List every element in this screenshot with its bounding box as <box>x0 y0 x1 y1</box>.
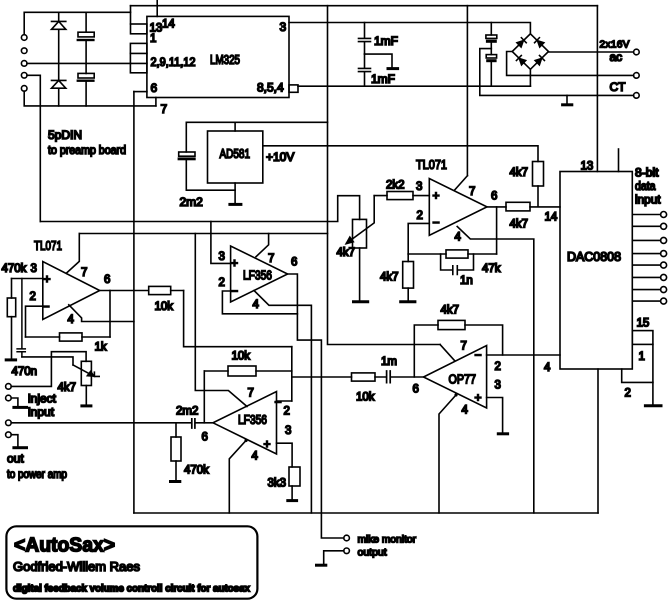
capacitor 2m2 output <box>11 419 213 428</box>
svg-text:−: − <box>231 284 238 298</box>
svg-text:7: 7 <box>161 102 168 116</box>
bridge diode arrow upper-right <box>535 38 545 48</box>
svg-text:6: 6 <box>491 191 497 203</box>
DAC data pin stub 1 <box>632 212 666 218</box>
5pDIN connector pin 4 <box>21 73 27 79</box>
bridge diode arrow lower-left <box>516 56 526 66</box>
resistor 470k input <box>7 279 15 317</box>
electrolytic capacitor CE2 <box>77 63 95 106</box>
svg-text:4k7: 4k7 <box>380 272 399 284</box>
U3 pin 2 feedback wire <box>222 291 297 314</box>
svg-text:+: + <box>475 391 482 405</box>
U3 pin 4 wire <box>254 291 311 514</box>
LM325 pin 6 stub <box>134 91 147 93</box>
svg-text:LF356: LF356 <box>238 412 267 427</box>
svg-text:10k: 10k <box>356 392 375 404</box>
svg-text:2: 2 <box>284 406 290 418</box>
ground U5 pin 3 <box>498 432 507 435</box>
svg-text:+: + <box>433 189 440 203</box>
resistor 4k7 bias <box>403 254 414 288</box>
ground 470k input <box>6 317 15 360</box>
svg-text:4k7: 4k7 <box>510 167 529 179</box>
svg-text:3: 3 <box>285 425 291 437</box>
AutoSax title box <box>6 526 257 598</box>
svg-text:Godfried-Willem Raes: Godfried-Willem Raes <box>13 559 140 574</box>
LM325 pin 7 step <box>155 98 157 106</box>
AD581 top pin wire <box>234 122 236 131</box>
svg-text:output: output <box>358 547 387 559</box>
svg-text:2m2: 2m2 <box>180 195 204 209</box>
svg-text:ac: ac <box>610 50 623 64</box>
svg-text:2,9,11,12: 2,9,11,12 <box>151 57 196 69</box>
op-amp U3 LF356 top triangle <box>231 246 288 302</box>
DAC data pin stub 4 <box>632 251 666 257</box>
wire U1 out to summing node <box>184 291 292 347</box>
ground AD581 <box>230 183 241 204</box>
ground 470k output <box>171 461 180 482</box>
bridge diode arrow upper-left <box>516 38 526 48</box>
5pDIN connector pin 1 <box>21 35 27 41</box>
wire V-plus rail 233.5 <box>79 233 327 235</box>
wire summing node vertical <box>291 347 293 401</box>
terminal out ground <box>6 432 12 438</box>
wire pin3 to LM325 2,9,11,12 <box>27 62 131 64</box>
svg-text:TL071: TL071 <box>416 157 447 172</box>
svg-text:4: 4 <box>544 362 551 374</box>
svg-text:3k3: 3k3 <box>268 478 287 490</box>
svg-text:5pDIN: 5pDIN <box>48 128 82 142</box>
ground on CT line <box>563 95 572 104</box>
LM325 pin box stack 2,9,11,12 <box>130 43 147 72</box>
wire output terminal to ground <box>324 551 344 564</box>
LM325 pin box 13/14 <box>131 6 147 34</box>
TL071 right pin 4 wire <box>457 227 534 514</box>
capacitor 1mF upper <box>359 23 371 55</box>
svg-text:4k7: 4k7 <box>58 382 77 394</box>
electrolytic capacitor CE4 <box>486 55 496 87</box>
U1 pin 4 wire <box>69 305 134 322</box>
svg-text:1: 1 <box>150 33 156 45</box>
reference AD581 box <box>208 131 263 183</box>
DAC data pin stub 6 <box>632 274 666 280</box>
bridge diode arrow lower-right <box>535 56 545 66</box>
svg-text:4: 4 <box>462 405 469 417</box>
svg-text:4: 4 <box>252 451 259 463</box>
svg-text:6: 6 <box>413 384 419 396</box>
LM325 pin 3 wire to bridge plus <box>289 23 530 34</box>
svg-text:10k: 10k <box>232 351 251 363</box>
U4 pin 4 wire <box>229 441 246 514</box>
svg-text:inject: inject <box>28 392 57 406</box>
op-amp U1 TL071 left triangle <box>43 262 100 320</box>
svg-text:6: 6 <box>151 81 158 95</box>
diode D2 <box>52 80 66 106</box>
capacitor 2m2 electrolytic <box>178 122 236 190</box>
ground at 1mF midpoint <box>365 54 398 69</box>
wire caps midpoint to CT <box>480 49 634 96</box>
ground out terminal <box>11 435 26 448</box>
LM325 pin 8,5,4 wire to bridge minus <box>298 85 530 87</box>
DAC bottom wire to rail <box>597 369 599 513</box>
TL071 right pin 7 wire <box>454 176 467 191</box>
svg-text:4k7: 4k7 <box>510 219 529 231</box>
DAC data pin stub 8 <box>632 298 666 304</box>
U5 pin 4 wire <box>439 395 456 513</box>
svg-text:CT: CT <box>610 80 627 94</box>
svg-text:data: data <box>635 181 656 193</box>
terminal inject signal <box>6 384 12 390</box>
DAC data pin stub 7 <box>632 287 666 293</box>
svg-text:input: input <box>28 405 55 419</box>
svg-text:6: 6 <box>291 257 297 269</box>
terminal output <box>344 548 350 554</box>
svg-text:+: + <box>264 437 271 451</box>
svg-text:3: 3 <box>219 251 225 263</box>
U3 pin 7 wire <box>256 234 269 257</box>
svg-text:mike monitor: mike monitor <box>358 534 417 546</box>
svg-text:14: 14 <box>162 19 175 31</box>
svg-text:1: 1 <box>639 351 645 363</box>
U4 pin 2 wire <box>277 400 292 402</box>
svg-text:AD581: AD581 <box>220 146 251 161</box>
resistor 4k7 feedback U5 <box>414 320 502 377</box>
svg-text:8,5,4: 8,5,4 <box>257 81 284 95</box>
wire bridge right vertex to 2x16V <box>549 51 634 53</box>
svg-text:+: + <box>44 272 51 286</box>
svg-text:3: 3 <box>31 263 37 275</box>
svg-text:DAC0808: DAC0808 <box>567 250 621 264</box>
svg-text:2k2: 2k2 <box>386 180 405 192</box>
TL071 right output wire and resistor 4k7 out <box>487 202 560 211</box>
top border wire <box>131 5 598 7</box>
terminal mike monitor <box>344 535 350 541</box>
resistor 4k7 pullup <box>533 162 544 187</box>
regulator LM325 box <box>147 16 289 97</box>
op-amp U5 OP77 triangle <box>424 346 487 409</box>
svg-text:470k: 470k <box>2 263 27 275</box>
U1 pin 2 wire <box>26 306 43 337</box>
wire bridge left vertex to ac2 <box>507 52 634 76</box>
ground trimmer upper <box>354 248 368 302</box>
wire V-minus long vertical <box>133 92 135 513</box>
svg-text:1mF: 1mF <box>374 34 398 48</box>
svg-text:3: 3 <box>416 181 422 193</box>
svg-text:14: 14 <box>545 212 558 224</box>
svg-text:3: 3 <box>280 20 287 34</box>
capacitor 470n <box>17 279 25 357</box>
wire 222 rail to trimmer top <box>40 196 359 222</box>
DAC data pin stub 3 <box>632 237 666 243</box>
svg-text:470k: 470k <box>184 465 209 477</box>
svg-text:4k7: 4k7 <box>337 247 356 259</box>
TL071 right pin 2 wire <box>408 223 429 254</box>
DAC data pin stub 5 <box>632 262 666 268</box>
U5 output wire with resistor 10k <box>292 373 386 381</box>
svg-text:13: 13 <box>581 161 594 173</box>
wire +10V <box>263 146 538 162</box>
capacitor 1n <box>441 254 474 274</box>
svg-text:1mF: 1mF <box>371 72 395 86</box>
svg-text:7: 7 <box>248 388 254 400</box>
DAC pin 1 step wire <box>622 369 653 382</box>
terminal 2x16V <box>634 49 640 55</box>
svg-text:<AutoSax>: <AutoSax> <box>14 535 115 557</box>
terminal CT <box>634 93 640 99</box>
DAC data pin stub 2 <box>632 223 666 229</box>
svg-text:6: 6 <box>104 274 110 286</box>
electrolytic capacitor CE3 <box>486 23 497 55</box>
svg-text:2: 2 <box>625 388 631 400</box>
svg-text:2: 2 <box>30 291 36 303</box>
ground DAC <box>645 404 661 407</box>
ground 3k3 <box>288 486 297 501</box>
svg-text:10k: 10k <box>155 301 174 313</box>
svg-text:1n: 1n <box>460 275 473 287</box>
DAC pin 15 box <box>632 331 653 345</box>
wire bridge bottom leg <box>529 69 531 86</box>
capacitor 1mF lower <box>359 54 371 86</box>
wire pin5 to bottom line <box>24 91 156 106</box>
U1 output wire and resistor 10k <box>100 286 184 294</box>
trimmer 4k7 upper <box>346 196 375 248</box>
svg-text:8-bit: 8-bit <box>635 168 659 180</box>
diode D1 <box>52 12 66 80</box>
resistor 1k feedback <box>26 333 111 341</box>
svg-text:+: + <box>231 256 238 270</box>
resistor 10k feedback U4 <box>204 366 291 376</box>
wire 4k7 pullup to output line <box>537 186 539 207</box>
svg-text:4: 4 <box>455 232 462 244</box>
ground trimmer lower <box>82 386 91 406</box>
wire bottom rail <box>134 512 598 514</box>
svg-text:1m: 1m <box>381 356 397 368</box>
U5 pin 2 wire to DAC pin 4 <box>487 354 560 356</box>
5pDIN connector pin 3 <box>21 61 27 67</box>
DAC pin 15 ground wire <box>652 344 654 404</box>
U1 pin 3 wire <box>12 278 43 280</box>
wire inject to trimmer2 top <box>11 352 86 387</box>
U4 pin 3 wire <box>277 443 293 467</box>
wire vertical x467.5 to TL071 pin7 <box>466 6 468 176</box>
U3 output wire to mike monitor <box>288 274 344 538</box>
resistor 47k feedback <box>408 250 496 258</box>
svg-text:6: 6 <box>202 432 208 444</box>
wire 10k feedback to output <box>203 371 205 423</box>
ground inject <box>11 398 26 407</box>
capacitor 1m series <box>387 371 424 383</box>
svg-text:2: 2 <box>417 210 423 222</box>
svg-text:2m2: 2m2 <box>176 406 198 418</box>
svg-text:7: 7 <box>81 267 87 279</box>
svg-text:to power amp: to power amp <box>7 469 67 481</box>
svg-text:7: 7 <box>469 186 475 198</box>
wire stub 8bit <box>618 149 620 172</box>
wire 1k to output <box>109 291 111 338</box>
U5 pin 7 wire <box>440 345 455 361</box>
wire pin4 to pin7 line and 222 rail <box>27 75 40 221</box>
DAC0808 box <box>560 172 632 370</box>
svg-text:7: 7 <box>461 341 467 353</box>
svg-text:2: 2 <box>495 361 501 373</box>
svg-text:15: 15 <box>637 318 650 330</box>
svg-text:−: − <box>275 395 282 409</box>
U5 pin 4 dot <box>454 393 457 396</box>
svg-text:+10V: +10V <box>266 150 294 164</box>
svg-text:LF356: LF356 <box>243 268 272 283</box>
svg-text:47k: 47k <box>482 263 501 275</box>
LM325 pin box 8,5,4 <box>289 85 298 92</box>
trimmer 4k7 lower body <box>81 361 91 385</box>
svg-text:LM325: LM325 <box>210 52 240 67</box>
svg-text:input: input <box>635 195 661 207</box>
svg-text:7: 7 <box>268 253 274 265</box>
resistor 470k output <box>171 423 181 461</box>
wire Vcc vertical x327.5 to OP77 pin7 <box>328 6 441 345</box>
svg-text:−: − <box>433 216 440 230</box>
svg-text:2x16V: 2x16V <box>600 40 630 51</box>
wire stub exiting top at LM325 <box>156 0 158 16</box>
5pDIN connector pin 2 <box>21 48 27 54</box>
terminal inject ground <box>6 395 12 401</box>
resistor 2k2 <box>374 192 429 200</box>
trimmer 4k7 lower wiper arrow <box>73 365 99 377</box>
U3 pin 3 wire <box>211 222 231 264</box>
U5 pin 3 wire <box>487 398 503 433</box>
5pDIN connector pin 5 <box>21 86 27 92</box>
svg-text:−: − <box>475 348 482 362</box>
svg-text:3: 3 <box>495 380 501 392</box>
electrolytic capacitor CE1 <box>77 12 95 63</box>
terminal out signal <box>6 420 12 426</box>
wire 47k to output <box>496 207 498 254</box>
svg-text:to preamp board: to preamp board <box>48 145 126 157</box>
svg-text:4: 4 <box>253 299 260 311</box>
svg-text:4k7: 4k7 <box>441 305 460 317</box>
terminal ac <box>634 73 640 79</box>
U1 pin 7 wire <box>66 234 79 274</box>
wire pin1 to +rail <box>24 12 130 34</box>
bridge rectifier diamond <box>512 34 548 70</box>
U4 pin 7 wire <box>195 234 247 407</box>
svg-text:2: 2 <box>219 277 225 289</box>
svg-text:1k: 1k <box>95 342 107 354</box>
svg-text:digital feedback volume contro: digital feedback volume controll circuit… <box>13 584 250 595</box>
svg-text:470n: 470n <box>12 366 38 378</box>
wire vertical to DAC pin 13 <box>596 6 598 172</box>
AD581 section top wire <box>186 121 327 123</box>
svg-text:TL071: TL071 <box>34 238 62 253</box>
U4 pin 4 dot <box>244 439 247 442</box>
ground 4k7 bias <box>401 288 415 302</box>
svg-text:OP77: OP77 <box>449 372 477 387</box>
op-amp U2 TL071 right triangle <box>429 179 487 236</box>
wire 470n to trimmer2 wiper <box>22 357 73 365</box>
svg-text:4: 4 <box>68 314 75 326</box>
op-amp U4 LF356 bottom triangle <box>213 392 277 455</box>
resistor 3k3 <box>289 467 300 486</box>
svg-text:out: out <box>7 452 24 466</box>
ground output terminal <box>317 564 326 567</box>
